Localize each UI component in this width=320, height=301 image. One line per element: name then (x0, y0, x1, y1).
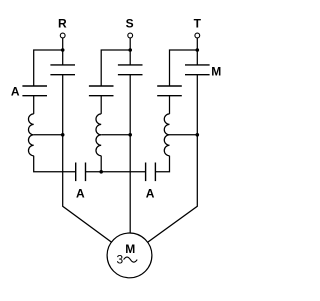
svg-text:R: R (58, 17, 67, 31)
svg-text:3: 3 (116, 253, 123, 267)
svg-text:A: A (11, 84, 20, 98)
svg-text:T: T (194, 17, 202, 31)
svg-text:S: S (126, 17, 134, 31)
svg-text:A: A (76, 187, 85, 201)
svg-text:A: A (146, 187, 155, 201)
svg-text:M: M (211, 65, 221, 79)
svg-text:M: M (125, 242, 135, 256)
